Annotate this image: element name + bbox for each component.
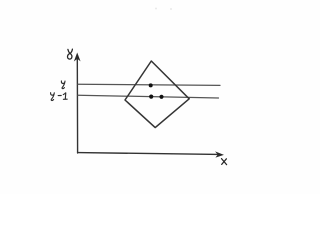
y-axis arrowhead	[75, 54, 80, 61]
dot 2 on lower line	[159, 95, 163, 99]
diamond (rotated square)	[125, 61, 189, 128]
label y-1: minus	[58, 95, 61, 97]
dot 1 on lower line	[149, 95, 153, 99]
label y (upper line)	[61, 81, 65, 89]
lower horizontal line y-1	[78, 95, 219, 98]
faint smudge dots top	[155, 8, 157, 10]
label y-1: y	[51, 93, 55, 101]
x-axis arrowhead	[216, 152, 223, 157]
dot on upper line	[149, 83, 153, 87]
label x (axis)	[222, 159, 227, 165]
y-axis	[76, 57, 78, 153]
upper horizontal line y	[78, 84, 220, 85]
x-axis	[78, 153, 219, 155]
label y-1: 1	[63, 93, 67, 100]
label y (axis)	[67, 49, 72, 59]
